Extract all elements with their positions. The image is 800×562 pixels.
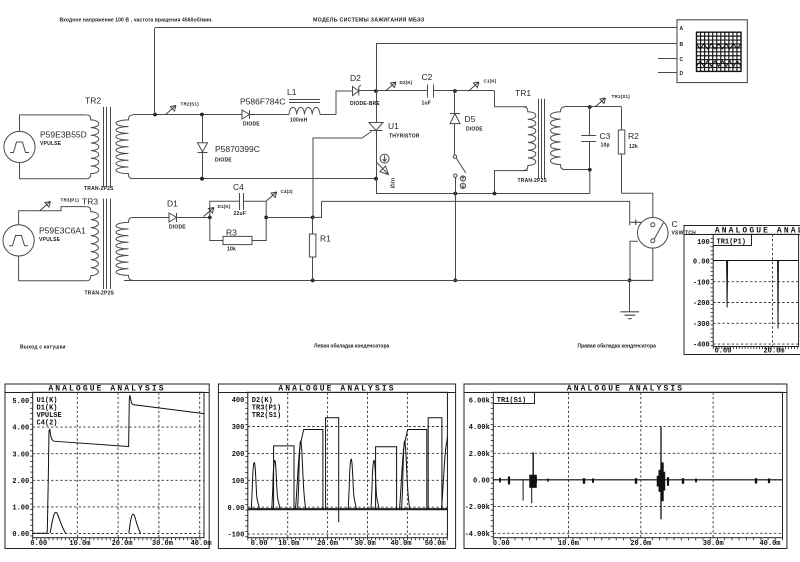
- svg-text:22uF: 22uF: [234, 211, 246, 217]
- svg-text:0.00: 0.00: [715, 347, 732, 355]
- svg-text:Выход с катушки: Выход с катушки: [20, 345, 66, 351]
- svg-text:12k: 12k: [629, 144, 638, 150]
- svg-text:C1(K): C1(K): [484, 79, 497, 84]
- svg-text:20.0m: 20.0m: [112, 540, 133, 548]
- svg-text:C: C: [672, 219, 678, 229]
- svg-text:D2(K): D2(K): [400, 80, 413, 85]
- svg-text:4.00: 4.00: [12, 425, 29, 433]
- svg-text:20.0m: 20.0m: [317, 540, 338, 548]
- svg-text:6.00k: 6.00k: [469, 397, 490, 405]
- svg-text:TRAN-2P2S: TRAN-2P2S: [518, 178, 548, 184]
- svg-text:L1: L1: [287, 87, 297, 97]
- svg-text:TR1(S1): TR1(S1): [612, 94, 631, 99]
- svg-text:A: A: [680, 26, 684, 32]
- svg-text:D1: D1: [167, 199, 178, 209]
- svg-text:4.00k: 4.00k: [469, 424, 490, 432]
- svg-text:DIODE: DIODE: [215, 158, 232, 164]
- svg-text:400: 400: [232, 397, 245, 405]
- svg-text:P586F784C: P586F784C: [240, 97, 285, 107]
- svg-text:10k: 10k: [227, 247, 236, 253]
- svg-text:TRAN-2P2S: TRAN-2P2S: [84, 186, 114, 192]
- svg-text:5.00: 5.00: [12, 398, 29, 406]
- svg-text:40.0m: 40.0m: [191, 540, 212, 548]
- svg-text:-4.00k: -4.00k: [465, 531, 490, 539]
- svg-text:0.00: 0.00: [30, 540, 47, 548]
- svg-text:200: 200: [232, 451, 245, 459]
- svg-text:-100: -100: [227, 532, 244, 540]
- svg-text:2.00k: 2.00k: [469, 451, 490, 459]
- svg-text:TRAN-2P2S: TRAN-2P2S: [85, 291, 115, 297]
- svg-text:C: C: [680, 57, 684, 63]
- svg-text:1.00: 1.00: [12, 505, 29, 513]
- svg-text:-100: -100: [693, 279, 710, 287]
- svg-text:30.0m: 30.0m: [703, 540, 724, 548]
- svg-text:30.0m: 30.0m: [152, 540, 173, 548]
- svg-text:D2: D2: [350, 73, 361, 83]
- svg-text:-2.00k: -2.00k: [465, 504, 490, 512]
- svg-text:VPULSE: VPULSE: [40, 141, 62, 147]
- svg-text:-400: -400: [693, 342, 710, 350]
- svg-text:DIODE-BRE: DIODE-BRE: [350, 101, 380, 107]
- svg-text:10p: 10p: [601, 143, 610, 149]
- svg-text:10.0m: 10.0m: [278, 540, 299, 548]
- svg-text:DIODE: DIODE: [466, 127, 483, 133]
- svg-text:C4(2): C4(2): [37, 419, 58, 427]
- svg-text:D1(K): D1(K): [218, 204, 231, 209]
- svg-text:10.0m: 10.0m: [69, 540, 90, 548]
- svg-text:C4: C4: [233, 182, 244, 192]
- svg-text:20.0m: 20.0m: [763, 347, 784, 355]
- svg-text:TR2(S1): TR2(S1): [252, 412, 281, 420]
- svg-text:R2: R2: [628, 131, 639, 141]
- svg-text:DIODE: DIODE: [169, 225, 186, 231]
- svg-text:TR3(P1): TR3(P1): [61, 198, 80, 203]
- svg-text:Входное напряжение 100 В , час: Входное напряжение 100 В , частота враще…: [60, 17, 214, 24]
- svg-text:P59E3C6A1: P59E3C6A1: [39, 226, 86, 236]
- svg-text:0.00: 0.00: [12, 531, 29, 539]
- svg-text:30.0m: 30.0m: [355, 540, 376, 548]
- svg-text:100mH: 100mH: [290, 118, 308, 124]
- svg-text:0.00: 0.00: [493, 540, 510, 548]
- svg-text:0.00: 0.00: [693, 259, 710, 267]
- svg-text:U1: U1: [388, 121, 399, 131]
- svg-text:МОДЕЛЬ СИСТЕМЫ ЗАЖИГАНИЯ МБЭЗ: МОДЕЛЬ СИСТЕМЫ ЗАЖИГАНИЯ МБЭЗ: [313, 18, 425, 24]
- svg-text:P5870399C: P5870399C: [215, 144, 260, 154]
- svg-text:0.00: 0.00: [227, 505, 244, 513]
- svg-text:D: D: [680, 71, 684, 77]
- svg-text:3.00: 3.00: [12, 451, 29, 459]
- svg-text:300: 300: [232, 424, 245, 432]
- svg-text:100: 100: [697, 239, 710, 247]
- svg-text:VPULSE: VPULSE: [39, 237, 61, 243]
- svg-text:P59E3B55D: P59E3B55D: [40, 130, 87, 140]
- svg-text:40.0m: 40.0m: [390, 540, 411, 548]
- svg-text:2.00: 2.00: [12, 478, 29, 486]
- svg-text:20.0m: 20.0m: [630, 540, 651, 548]
- svg-text:D5: D5: [465, 114, 476, 124]
- svg-text:R3: R3: [226, 228, 237, 238]
- svg-text:THYRISTOR: THYRISTOR: [389, 134, 420, 140]
- svg-text:TR2(S1): TR2(S1): [181, 102, 200, 107]
- svg-text:Левая обкладка конденсатора: Левая обкладка конденсатора: [314, 343, 389, 350]
- svg-text:Правая обкладка конденсатора: Правая обкладка конденсатора: [578, 343, 657, 350]
- svg-text:C3: C3: [600, 131, 611, 141]
- svg-text:TR2: TR2: [85, 96, 101, 106]
- svg-text:-300: -300: [693, 321, 710, 329]
- svg-text:C2: C2: [422, 72, 433, 82]
- svg-text:DIODE: DIODE: [243, 122, 260, 128]
- svg-text:B: B: [680, 42, 684, 48]
- svg-text:TR1: TR1: [515, 88, 531, 98]
- svg-text:-200: -200: [693, 300, 710, 308]
- svg-text:0.00: 0.00: [473, 477, 490, 485]
- svg-text:I1(Q): I1(Q): [390, 178, 395, 189]
- svg-text:10.0m: 10.0m: [558, 540, 579, 548]
- svg-text:C4(2): C4(2): [281, 189, 294, 194]
- svg-text:1uF: 1uF: [422, 101, 432, 107]
- svg-text:50.0m: 50.0m: [425, 540, 446, 548]
- svg-text:40.0m: 40.0m: [759, 540, 780, 548]
- svg-text:R1: R1: [320, 234, 331, 244]
- svg-text:100: 100: [232, 478, 245, 486]
- svg-text:0.00: 0.00: [251, 540, 268, 548]
- svg-text:TR3: TR3: [82, 197, 98, 207]
